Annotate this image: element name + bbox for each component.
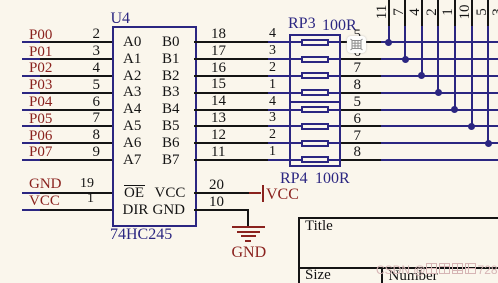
U4 pin name B6 [162, 136, 180, 151]
U4 pin 18 (B0) pin line [194, 41, 268, 43]
U4 pin 2 (A0) pin line [40, 41, 112, 43]
wire row 5 to connector [381, 109, 498, 111]
RP4 pin number 2 (left) [236, 128, 276, 142]
wire row 8 to connector [381, 159, 498, 161]
U4 pin name A2 [123, 69, 141, 84]
power port VCC text [266, 187, 299, 203]
U4 pin name B3 [162, 85, 180, 100]
U4 part value 74HC245 [110, 227, 172, 243]
ground symbol bar 1 [232, 226, 265, 228]
wire row 4 to connector [381, 92, 498, 94]
resistor RP4.3 element body [301, 123, 329, 130]
wire B1 to resistor pack [268, 58, 302, 60]
U4 pin 19 pin line [40, 192, 112, 194]
connector pin 1 pin line (top stub) [454, 0, 456, 27]
RP3 pin 6 pin line [341, 58, 381, 60]
junction dot 3 [418, 72, 425, 79]
net label P02 [29, 61, 52, 76]
net label P00 [29, 28, 52, 43]
U4 pin 13 (B5) pin line [194, 125, 268, 127]
U4 pin number 15 [211, 77, 226, 92]
wire B7 to resistor pack [268, 159, 302, 161]
U4 pin number 20 [209, 178, 224, 193]
U4 pin 15 (B3) pin line [194, 92, 268, 94]
watermark badge icon [347, 36, 366, 53]
U4 pin 17 (B1) pin line [194, 58, 268, 60]
U4 pin name DIR [123, 203, 149, 218]
vertical wire 6 [471, 26, 473, 126]
U4 designator label [111, 11, 131, 27]
RP3 pin number 1 (left) [236, 78, 276, 92]
U4 pin number 9 [60, 145, 100, 160]
RP3 pin 7 pin line [341, 75, 381, 77]
RP4 value 100R [315, 171, 350, 187]
connector pin 4 pin line (top stub) [421, 0, 423, 27]
RP4 pin number 1 (left) [236, 145, 276, 159]
U4 pin name B4 [162, 102, 180, 117]
junction dot 7 [485, 140, 492, 147]
U4 pin name B7 [162, 153, 180, 168]
RP3 pin number 6 (right) [354, 45, 362, 60]
resistor RP4.1 element body [301, 156, 329, 163]
resistor RP3.2 element body [301, 72, 329, 79]
U4 pin name B0 [162, 35, 180, 50]
wire down to ground [247, 210, 249, 226]
U4 pin name B2 [162, 69, 180, 84]
U4 pin number 4 [60, 61, 100, 76]
wire net P07 (left of U4) [22, 159, 42, 161]
U4 pin name A1 [123, 52, 141, 67]
U4 pin name B5 [162, 119, 180, 134]
net label P03 [29, 78, 52, 93]
junction dot 1 [385, 39, 392, 46]
RP4 pin number 4 (left) [236, 95, 276, 109]
wire row 3 to connector [381, 75, 498, 77]
U4 pin name A7 [123, 153, 141, 168]
wire net GND (left) [22, 192, 42, 194]
vertical wire 3 [421, 26, 423, 76]
wire net P03 (left of U4) [22, 92, 42, 94]
U4 pin number 7 [60, 111, 100, 126]
resistor RP4.4 element body [301, 106, 329, 113]
RP3 pin number 4 (left) [236, 27, 276, 41]
U4 pin number 13 [211, 111, 226, 126]
ground symbol bar 4 [245, 240, 251, 242]
U4 pin name A6 [123, 136, 141, 151]
junction dot 5 [451, 106, 458, 113]
resistor RP3.4 element body [301, 39, 329, 46]
U4 pin number 12 [211, 128, 226, 143]
RP3 pin number 2 (left) [236, 61, 276, 75]
net label P07 [29, 145, 52, 160]
connector pin number 4 rotated [408, 2, 422, 22]
RP4 pin number 6 (right) [354, 112, 362, 127]
connector pin number 11 rotated [375, 2, 389, 22]
vertical wire 2 [404, 26, 406, 59]
resistor RP3.3 element body [301, 56, 329, 63]
title block top border [298, 217, 498, 219]
U4 pin number 6 [60, 95, 100, 110]
U4 pin 12 (B6) pin line [194, 142, 268, 144]
U4 pin 7 (A5) pin line [40, 125, 112, 127]
U4 pin 8 (A6) pin line [40, 142, 112, 144]
RP4 pin 8 pin line [341, 159, 381, 161]
connector pin 3 rotated number (clipped) [491, 2, 498, 22]
RP3 pin number 5 (right) [354, 28, 362, 43]
wire row 7 to connector [381, 142, 498, 144]
ground symbol bar 3 [241, 235, 256, 237]
title block vertical divider [381, 267, 383, 283]
wire net P02 (left of U4) [22, 75, 42, 77]
RP3 designator label [288, 16, 316, 32]
RP3 value 100R [322, 18, 357, 34]
U4 pin number 11 [211, 145, 225, 160]
wire B5 to resistor pack [268, 125, 302, 127]
net label VCC [29, 194, 60, 209]
wire B4 to resistor pack [268, 109, 302, 111]
wire row 2 to connector [381, 58, 498, 60]
connector pin number 5 rotated [475, 2, 489, 22]
U4 pin 20 pin line [194, 192, 249, 194]
resistor RP3 right lead [329, 92, 341, 94]
title block Size text [305, 268, 331, 283]
U4 pin number 10 [209, 195, 224, 210]
RP3 pin 8 pin line [341, 92, 381, 94]
resistor RP3.1 element body [301, 89, 329, 96]
U4 pin name A4 [123, 102, 141, 117]
title block left border [298, 217, 300, 283]
U4 pin number 14 [211, 94, 226, 109]
U4 pin number 1 [54, 192, 94, 206]
net label P01 [29, 45, 52, 60]
U4 pin name OE [124, 186, 144, 201]
wire row 1 to connector [381, 41, 498, 43]
wire B6 to resistor pack [268, 142, 302, 144]
wire net VCC (left) [22, 209, 42, 211]
U4 pin name A3 [123, 85, 141, 100]
title block divider [298, 267, 498, 269]
connector pin 11 pin line (top stub) [388, 0, 390, 27]
ground GND text [232, 245, 267, 261]
IC U4 74HC245 body [112, 26, 197, 227]
ground symbol bar 2 [237, 231, 260, 233]
wire B2 to resistor pack [268, 75, 302, 77]
U4 pin name A0 [123, 35, 141, 50]
connector pin number 7 rotated [392, 2, 406, 22]
net label GND [29, 177, 62, 192]
U4 pin 11 (B7) pin line [194, 159, 268, 161]
resistor RP4.2 element body [301, 140, 329, 147]
U4 pin 6 (A4) pin line [40, 109, 112, 111]
junction dot 4 [435, 89, 442, 96]
U4 pin name A5 [123, 119, 141, 134]
resistor RP3 right lead [329, 41, 341, 43]
net label P05 [29, 112, 52, 127]
wire net P04 (left of U4) [22, 109, 42, 111]
resistor pack RP4 body [289, 101, 341, 167]
wire net P01 (left of U4) [22, 58, 42, 60]
RP4 pin number 8 (right) [354, 145, 362, 160]
title block Title text [305, 219, 333, 234]
U4 pin name VCC [155, 186, 186, 201]
resistor RP4 right lead [329, 142, 341, 144]
U4 pin number 16 [211, 61, 226, 76]
RP4 pin number 7 (right) [354, 129, 362, 144]
RP3 pin 5 pin line [341, 41, 381, 43]
U4 pin number 2 [60, 27, 100, 42]
resistor RP4 right lead [329, 109, 341, 111]
U4 pin name B1 [162, 52, 180, 67]
resistor RP4 right lead [329, 125, 341, 127]
U4 pin number 19 [54, 177, 94, 191]
vertical wire 1 [388, 26, 390, 42]
U4 pin number 8 [60, 128, 100, 143]
U4 pin 5 (A3) pin line [40, 92, 112, 94]
U4 pin 16 (B2) pin line [194, 75, 268, 77]
junction dot 2 [402, 56, 409, 63]
U4 pin 1 pin line [40, 209, 112, 211]
connector pin 5 pin line (top stub) [487, 0, 489, 27]
U4 pin 3 (A1) pin line [40, 58, 112, 60]
connector pin 7 pin line (top stub) [404, 0, 406, 27]
resistor RP3 right lead [329, 58, 341, 60]
wire net P00 (left of U4) [22, 41, 42, 43]
U4 pin name OE overline [124, 185, 145, 187]
wire row 6 to connector [381, 125, 498, 127]
U4 pin 4 (A2) pin line [40, 75, 112, 77]
junction dot 6 [468, 123, 475, 130]
RP4 pin number 3 (left) [236, 111, 276, 125]
RP4 pin 6 pin line [341, 125, 381, 127]
RP3 pin number 8 (right) [354, 78, 362, 93]
RP3 pin number 3 (left) [236, 44, 276, 58]
connector pin number 1 rotated [441, 2, 455, 22]
RP4 pin 5 pin line [341, 109, 381, 111]
power port VCC (bar) lead [249, 192, 261, 194]
watermark text [376, 263, 498, 276]
vertical wire 5 [454, 26, 456, 110]
wire net P06 (left of U4) [22, 142, 42, 144]
net label P04 [29, 95, 52, 110]
U4 pin 14 (B4) pin line [194, 109, 268, 111]
RP4 pin number 5 (right) [354, 95, 362, 110]
wire B0 to resistor pack [268, 41, 302, 43]
vertical wire 4 [437, 26, 439, 93]
U4 pin number 3 [60, 44, 100, 59]
net label P06 [29, 129, 52, 144]
U4 pin 9 (A7) pin line [40, 159, 112, 161]
resistor RP4 right lead [329, 159, 341, 161]
U4 pin name GND [153, 203, 186, 218]
U4 pin number 18 [211, 27, 226, 42]
power port VCC bar [262, 185, 264, 203]
connector pin number 10 rotated [458, 2, 472, 22]
wire B3 to resistor pack [268, 92, 302, 94]
title block Number text [389, 269, 438, 283]
resistor pack RP3 body [289, 34, 341, 101]
connector pin 10 pin line (top stub) [471, 0, 473, 27]
resistor RP3 right lead [329, 75, 341, 77]
U4 pin 10 pin line [194, 209, 249, 211]
RP4 pin 7 pin line [341, 142, 381, 144]
connector pin number 2 rotated [425, 2, 439, 22]
wire net P05 (left of U4) [22, 125, 42, 127]
U4 pin number 5 [60, 78, 100, 93]
U4 pin number 17 [211, 44, 226, 59]
connector pin 2 pin line (top stub) [437, 0, 439, 27]
vertical wire 7 [487, 26, 489, 143]
RP4 designator label [280, 171, 308, 187]
RP3 pin number 7 (right) [354, 61, 362, 76]
